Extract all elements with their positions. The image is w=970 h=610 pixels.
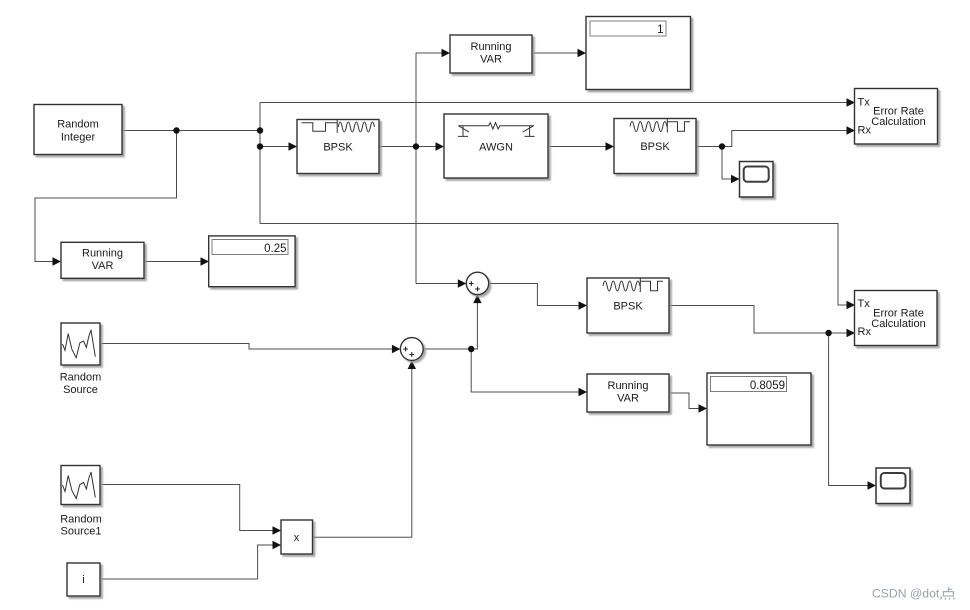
junction on BPSK2 output: [719, 143, 725, 149]
block AWGN: [444, 114, 548, 178]
wire Running VAR top to Display 1: [532, 52, 578, 54]
svg-text:Random: Random: [57, 119, 99, 131]
wire BPSK2 output with jog up to Error Rate 1 Rx: [696, 131, 847, 147]
arrowhead into BPSK1: [289, 142, 298, 150]
watermark CJK dot glyph: [941, 587, 955, 599]
block Error Rate Calculation 1: [855, 89, 938, 145]
block Random Source1: [60, 466, 102, 538]
block Display 1: [586, 17, 691, 90]
arrowhead into Error Rate 1 Rx: [847, 126, 856, 134]
block BPSK2 demodulator: [614, 119, 696, 174]
wire branch down to Scope1: [722, 147, 731, 180]
arrowhead into AWGN: [436, 142, 445, 150]
arrowhead into sum2 left: [392, 345, 401, 353]
svg-text:Tx: Tx: [858, 298, 871, 310]
arrowhead into Error Rate 2 Tx: [847, 301, 856, 309]
block Error Rate Calculation 2: [855, 291, 938, 346]
svg-text:Random: Random: [60, 372, 102, 384]
svg-text:Running: Running: [471, 41, 512, 53]
arrowhead into BPSK2: [606, 142, 615, 150]
wire to Running VAR top input: [416, 52, 442, 54]
arrowhead into Error Rate 1 Tx: [847, 98, 856, 106]
svg-text:Tx: Tx: [858, 96, 871, 108]
junction on BPSK1-AWGN wire at x=416: [413, 143, 419, 149]
svg-text:Calculation: Calculation: [871, 116, 925, 128]
sum block 2: [400, 338, 423, 361]
svg-text:Integer: Integer: [61, 132, 96, 144]
wire Random Source to sum2 left input: [100, 344, 392, 350]
arrowhead into product x input 2: [273, 541, 282, 549]
wire to sum1 left input: [416, 283, 458, 285]
junction on sum2 output: [468, 346, 474, 352]
svg-text:BPSK: BPSK: [640, 141, 670, 153]
wire branch down to Running VAR bottom input: [471, 349, 578, 392]
block Random Source: [60, 323, 102, 396]
svg-text:Source: Source: [63, 384, 98, 396]
junction on Random Integer output (branch to Running VAR left): [173, 127, 179, 133]
wire BPSK1 to AWGN: [379, 146, 436, 148]
wire Tx line to Error Rate Calculation 1: [260, 102, 847, 104]
arrowhead into sum1 bottom: [473, 295, 481, 304]
wire Random Source1 to product x input 1: [100, 485, 273, 531]
svg-text:CSDN @dot.: CSDN @dot.: [872, 587, 943, 601]
block Running VAR (left): [61, 242, 144, 278]
wire AWGN to BPSK2: [548, 146, 606, 148]
svg-text:Source1: Source1: [61, 526, 102, 538]
block Display 0.8059: [707, 373, 811, 445]
wire branch down-left to Running VAR (left) input: [35, 131, 177, 262]
svg-text:AWGN: AWGN: [479, 142, 513, 154]
wire to BPSK1 input: [260, 146, 289, 148]
arrowhead into product x input 1: [273, 526, 282, 534]
watermark CSDN: [872, 587, 943, 601]
wire vertical bus at x=416 from Running VAR top down to sum1: [415, 53, 417, 284]
arrowhead into sum2 bottom: [408, 361, 416, 370]
svg-text:BPSK: BPSK: [323, 142, 353, 154]
svg-text:VAR: VAR: [480, 54, 502, 66]
arrowhead into Display 0.8059: [699, 404, 708, 412]
junction at x=260 bus top branch: [257, 127, 263, 133]
block Running VAR (bottom): [587, 374, 669, 412]
wire Random Integer output to x=260 bus: [122, 130, 260, 132]
block BPSK1 modulator: [297, 120, 379, 174]
svg-text:BPSK: BPSK: [613, 301, 643, 313]
wire sum2 output right then up to sum1 bottom input: [423, 303, 477, 349]
wire long line y=223.5 to Error Rate 2 Tx: [260, 224, 847, 306]
svg-text:VAR: VAR: [617, 393, 639, 405]
junction at x=260 bus BPSK1 branch: [257, 143, 263, 149]
wire sum1 output to BPSK3 input: [489, 284, 579, 306]
block i constant: [67, 563, 100, 596]
block BPSK3 demodulator: [587, 278, 669, 333]
block Running VAR (top): [450, 35, 532, 73]
block Scope2: [876, 468, 910, 504]
svg-text:Running: Running: [82, 248, 123, 260]
block Display 0.25: [209, 236, 295, 287]
svg-text:Rx: Rx: [858, 326, 872, 338]
wire Running VAR left to Display 0.25: [144, 261, 201, 263]
wire vertical bus at x=260: [259, 103, 261, 224]
wire BPSK3 output to Error Rate 2 Rx: [669, 306, 847, 334]
wire product x output up to sum2 bottom input: [313, 369, 412, 537]
svg-text:1: 1: [657, 24, 663, 36]
arrowhead into BPSK3: [579, 301, 588, 309]
arrowhead into Scope1: [731, 175, 740, 183]
svg-text:0.8059: 0.8059: [750, 380, 785, 392]
wire i to product x input 2: [100, 545, 273, 579]
arrowhead into Scope2: [868, 481, 877, 489]
svg-text:i: i: [82, 574, 84, 586]
arrowhead into Running VAR left: [53, 257, 62, 265]
arrowhead into Display 1: [578, 49, 587, 57]
svg-text:0.25: 0.25: [264, 243, 286, 255]
wire branch down to Scope2: [829, 333, 868, 486]
arrowhead into Running VAR bottom: [579, 388, 588, 396]
block Random Integer: [34, 105, 122, 155]
svg-text:VAR: VAR: [92, 260, 114, 272]
block product x: [281, 520, 313, 554]
svg-text:Calculation: Calculation: [871, 318, 925, 330]
svg-text:Running: Running: [608, 380, 649, 392]
sum block 1: [466, 272, 488, 294]
svg-text:Random: Random: [60, 514, 102, 526]
junction on BPSK3-ErrorRate2 wire: [825, 330, 831, 336]
arrowhead into Error Rate 2 Rx: [847, 329, 856, 337]
svg-text:x: x: [294, 532, 300, 544]
arrowhead into sum1 left: [458, 279, 467, 287]
arrowhead into Display 0.25: [201, 257, 210, 265]
arrowhead into Running VAR top: [442, 49, 451, 57]
svg-text:Rx: Rx: [858, 124, 872, 136]
block Scope1: [740, 162, 774, 198]
wire Running VAR bottom to Display 0.8059: [669, 393, 699, 409]
